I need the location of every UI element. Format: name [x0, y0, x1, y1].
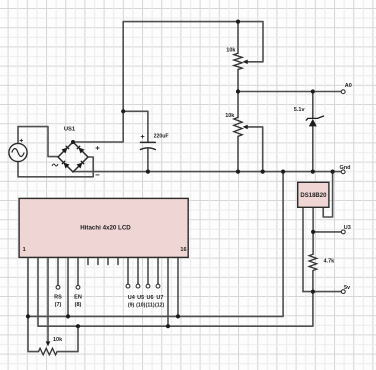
node U3 junction: [311, 230, 315, 234]
svg-text:U5: U5: [137, 295, 144, 301]
wire LCD pin 10 stub: [117, 257, 119, 264]
svg-text:10k: 10k: [53, 337, 63, 343]
svg-text:(8): (8): [75, 302, 82, 308]
svg-text:(11): (11): [146, 302, 155, 308]
wire R4 right lead to 5v bus: [57, 326, 78, 351]
node ground bus junction: [281, 170, 285, 174]
terminal EN: [74, 285, 82, 308]
Hitachi 4x20 LCD module: [19, 198, 188, 257]
wire LCD pin 11 U4 lead: [127, 257, 129, 284]
svg-text:U6: U6: [146, 295, 153, 301]
wire R2 top lead: [237, 92, 239, 118]
wire R1 top lead: [237, 22, 239, 54]
terminal RS: [54, 285, 62, 308]
svg-text:5v: 5v: [344, 285, 351, 291]
svg-text:A0: A0: [345, 83, 352, 89]
node R2 ground junction: [236, 170, 240, 174]
wire capacitor C1 bottom lead: [147, 149, 149, 172]
node wiper2 ground junction: [261, 170, 265, 174]
resistor R3 4.7k: [309, 254, 335, 270]
wire DS18B20 data pin down to R3: [312, 207, 314, 254]
node R4 5v bus junction: [76, 324, 80, 328]
node cap ground junction: [146, 170, 150, 174]
wire node A0 horizontal: [238, 91, 341, 93]
terminal A0: [341, 83, 352, 93]
node LCD pin1 bus junction: [26, 314, 30, 318]
wire R2 wiper to ground rail: [248, 127, 263, 172]
svg-text:16: 16: [180, 247, 186, 253]
node cap branch junction: [121, 109, 125, 113]
wire LCD pin 8 stub: [97, 257, 99, 264]
zener diode D1 5.1v: [294, 107, 324, 127]
diode bottom-right: [77, 163, 83, 169]
wire ground bus to LCD: [28, 172, 283, 317]
capacitor C1 220uF: [140, 134, 169, 150]
wire LCD pin 7 stub: [87, 257, 89, 264]
terminal U5: [136, 284, 146, 308]
wire LCD pin 6 EN lead: [77, 257, 79, 285]
node 5v junction: [311, 290, 315, 294]
wire R3 bottom lead: [312, 271, 314, 292]
node zener top junction: [311, 89, 315, 93]
svg-text:RS: RS: [54, 295, 62, 301]
node LCD pin15 bus junction: [166, 324, 170, 328]
AC source V1: [9, 139, 27, 162]
node DS ground junction: [331, 170, 335, 174]
wire ground rail: [73, 171, 341, 173]
svg-text:DS18B20: DS18B20: [300, 193, 327, 199]
wire LCD pin 14 U7 lead: [157, 257, 159, 284]
svg-text:220uF: 220uF: [154, 134, 169, 140]
bridge rectifier US1: [52, 126, 99, 175]
svg-text:EN: EN: [74, 295, 82, 301]
node zener ground junction: [311, 170, 315, 174]
wire LCD pin 13 U6 lead: [147, 257, 149, 284]
svg-text:Hitachi 4x20 LCD: Hitachi 4x20 LCD: [80, 225, 131, 232]
plus mark bridge output: [96, 146, 100, 150]
wire DS18B20 vdd pin: [302, 207, 304, 291]
svg-text:1: 1: [23, 247, 26, 253]
wire LCD pin 12 U5 lead: [137, 257, 139, 284]
svg-text:U4: U4: [128, 295, 136, 301]
wire LCD pin 9 stub: [107, 257, 109, 264]
terminal 5v: [341, 285, 351, 294]
wire LCD pin 15 to 5v bus: [167, 257, 169, 326]
wire LCD pin 3 down to R4 wiper: [47, 257, 49, 341]
svg-text:4.7k: 4.7k: [324, 258, 336, 264]
terminal Gnd: [340, 165, 351, 174]
svg-text:10k: 10k: [226, 48, 236, 54]
diode top-right: [79, 148, 85, 154]
node R1 bottom junction: [236, 89, 240, 93]
wire bridge + output, top rail, down to wiper of R1: [73, 22, 263, 142]
junction top vertex: [71, 140, 75, 144]
wire LCD pin 4 RS lead: [57, 257, 59, 285]
node LCD pin16 bus junction: [176, 314, 180, 318]
wire U3 terminal: [313, 231, 341, 233]
potentiometer R4 10k: [39, 337, 64, 355]
wire LCD pin 5 to ground bus: [67, 257, 69, 316]
svg-text:U3: U3: [344, 225, 351, 231]
svg-text:10k: 10k: [225, 113, 235, 119]
terminal U3: [341, 225, 350, 234]
svg-text:U7: U7: [156, 295, 163, 301]
diode bottom-left: [64, 163, 70, 169]
resistor R2 10k potentiometer: [225, 113, 248, 137]
wire 5v terminal: [303, 291, 341, 293]
svg-text:(10): (10): [136, 302, 145, 308]
wire zener D1 bottom lead: [312, 126, 314, 171]
ac squiggle mark: [52, 164, 58, 166]
wire R1 bottom lead: [237, 70, 239, 92]
wire R2 bottom lead: [237, 136, 239, 171]
terminal U4: [126, 284, 136, 308]
terminal U7: [155, 284, 164, 308]
wire AC source top lead to bridge left vertex: [18, 127, 58, 157]
DS18B20 sensor U2: [298, 182, 329, 207]
wire branch to capacitor C1: [123, 111, 148, 142]
svg-text:5.1v: 5.1v: [294, 107, 306, 113]
wire AC source bottom return to bridge right vertex: [18, 157, 93, 177]
wire zener D1 top lead: [312, 92, 314, 119]
diode top-left: [62, 148, 68, 154]
svg-text:(12): (12): [155, 302, 164, 308]
wire DS18B20 ground pin: [323, 172, 332, 217]
terminal U6: [146, 284, 155, 308]
minus mark bridge output: [96, 174, 100, 176]
wire LCD pin 16 to ground bus: [177, 257, 179, 316]
wire LCD pin 1 down to potentiometer R4 left: [28, 257, 39, 351]
svg-text:(9): (9): [128, 302, 135, 308]
svg-text:Gnd: Gnd: [340, 165, 351, 171]
svg-text:US1: US1: [64, 126, 76, 132]
resistor R1 10k potentiometer: [226, 48, 247, 70]
svg-text:(7): (7): [55, 302, 62, 308]
node R1 top junction: [236, 20, 240, 24]
wire 5v bus to LCD pin 2: [38, 257, 313, 326]
node LCD pin5 bus junction: [66, 314, 70, 318]
